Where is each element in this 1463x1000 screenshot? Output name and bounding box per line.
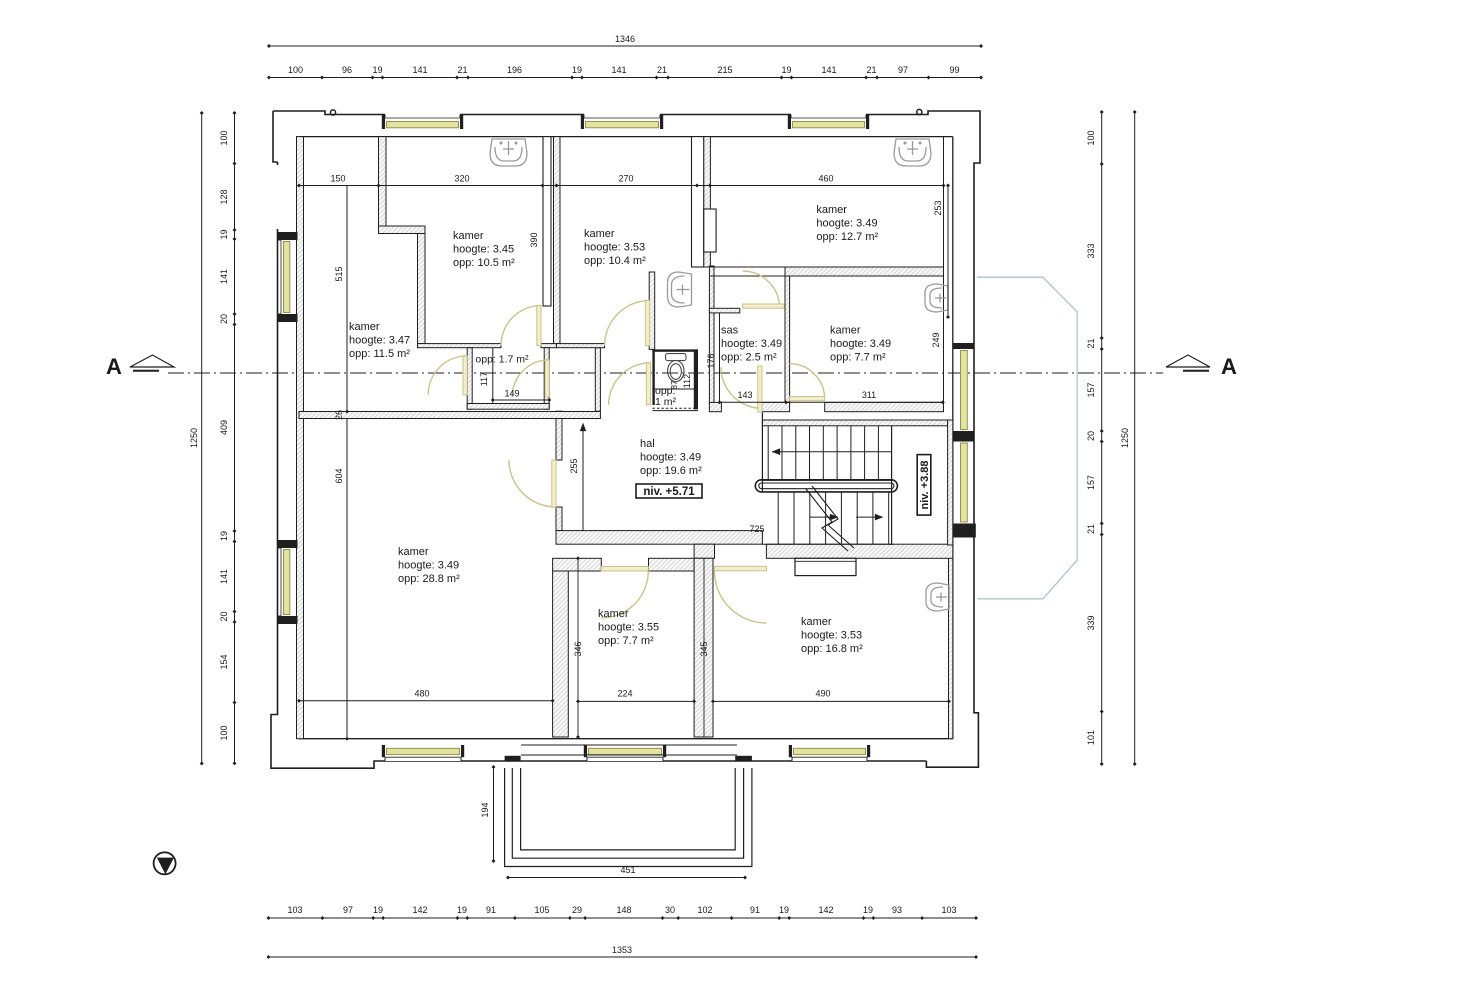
svg-text:154: 154 — [219, 654, 229, 669]
svg-text:hoogte: 3.53: hoogte: 3.53 — [801, 629, 862, 641]
svg-text:1346: 1346 — [615, 34, 635, 44]
svg-text:157: 157 — [1086, 475, 1096, 490]
svg-text:opp: 7.7 m²: opp: 7.7 m² — [830, 351, 886, 363]
svg-text:opp: 19.6 m²: opp: 19.6 m² — [640, 465, 702, 477]
svg-text:253: 253 — [933, 200, 943, 215]
svg-text:480: 480 — [414, 689, 429, 699]
svg-text:142: 142 — [412, 905, 427, 915]
svg-text:215: 215 — [717, 65, 732, 75]
svg-text:1250: 1250 — [189, 428, 199, 448]
svg-text:kamer: kamer — [349, 321, 380, 333]
svg-text:255: 255 — [569, 458, 579, 473]
svg-text:21: 21 — [1086, 338, 1096, 348]
svg-text:niv. +5.71: niv. +5.71 — [643, 486, 695, 498]
svg-text:141: 141 — [412, 65, 427, 75]
svg-text:19: 19 — [219, 531, 229, 541]
svg-text:kamer: kamer — [830, 325, 861, 337]
svg-text:opp: 10.4 m²: opp: 10.4 m² — [584, 255, 646, 267]
svg-text:311: 311 — [862, 390, 876, 400]
svg-text:103: 103 — [287, 905, 302, 915]
svg-text:148: 148 — [616, 905, 631, 915]
svg-text:sas: sas — [721, 325, 739, 337]
svg-text:19: 19 — [372, 65, 382, 75]
svg-text:20: 20 — [1086, 431, 1096, 441]
svg-text:604: 604 — [334, 468, 344, 483]
svg-text:99: 99 — [949, 65, 959, 75]
svg-text:490: 490 — [815, 689, 830, 699]
svg-text:157: 157 — [1086, 382, 1096, 397]
svg-text:93: 93 — [892, 905, 902, 915]
svg-text:345: 345 — [699, 641, 709, 656]
svg-text:hal: hal — [640, 438, 655, 450]
svg-text:100: 100 — [1086, 130, 1096, 145]
svg-text:97: 97 — [343, 905, 353, 915]
svg-text:opp: 2.5 m²: opp: 2.5 m² — [721, 351, 777, 363]
svg-text:112: 112 — [682, 374, 692, 388]
svg-text:21: 21 — [457, 65, 467, 75]
svg-text:21: 21 — [1086, 524, 1096, 534]
svg-text:kamer: kamer — [453, 230, 484, 242]
svg-text:30: 30 — [665, 905, 675, 915]
svg-text:103: 103 — [941, 905, 956, 915]
svg-text:hoogte: 3.47: hoogte: 3.47 — [349, 334, 410, 346]
svg-text:141: 141 — [219, 569, 229, 584]
svg-text:346: 346 — [573, 641, 583, 656]
svg-text:1 m²: 1 m² — [655, 396, 677, 408]
svg-text:hoogte: 3.49: hoogte: 3.49 — [398, 559, 459, 571]
svg-text:26: 26 — [334, 410, 344, 420]
svg-text:19: 19 — [779, 905, 789, 915]
svg-text:333: 333 — [1086, 243, 1096, 258]
svg-text:150: 150 — [330, 174, 345, 184]
svg-text:725: 725 — [749, 524, 764, 534]
svg-text:19: 19 — [373, 905, 383, 915]
svg-text:hoogte: 3.53: hoogte: 3.53 — [584, 241, 645, 253]
svg-text:20: 20 — [219, 611, 229, 621]
svg-text:niv. +3.88: niv. +3.88 — [919, 460, 931, 509]
svg-text:opp: 1.7 m²: opp: 1.7 m² — [475, 354, 529, 366]
svg-text:249: 249 — [931, 332, 941, 347]
svg-text:kamer: kamer — [584, 228, 615, 240]
svg-text:kamer: kamer — [816, 204, 847, 216]
svg-text:kamer: kamer — [801, 616, 832, 628]
svg-text:A: A — [106, 354, 122, 379]
svg-text:194: 194 — [480, 802, 490, 817]
svg-text:224: 224 — [617, 689, 632, 699]
svg-text:320: 320 — [454, 174, 469, 184]
svg-text:29: 29 — [572, 905, 582, 915]
svg-text:hoogte: 3.49: hoogte: 3.49 — [816, 217, 877, 229]
svg-text:19: 19 — [572, 65, 582, 75]
svg-text:kamer: kamer — [598, 608, 629, 620]
svg-text:460: 460 — [818, 174, 833, 184]
svg-text:91: 91 — [486, 905, 496, 915]
svg-text:19: 19 — [781, 65, 791, 75]
svg-text:141: 141 — [821, 65, 836, 75]
svg-text:100: 100 — [219, 725, 229, 740]
svg-text:hoogte: 3.49: hoogte: 3.49 — [830, 338, 891, 350]
svg-text:91: 91 — [750, 905, 760, 915]
svg-text:opp: 7.7 m²: opp: 7.7 m² — [598, 635, 654, 647]
svg-text:141: 141 — [219, 269, 229, 284]
svg-text:339: 339 — [1086, 615, 1096, 630]
svg-text:176: 176 — [706, 353, 716, 368]
svg-text:hoogte: 3.55: hoogte: 3.55 — [598, 621, 659, 633]
svg-text:117: 117 — [479, 372, 489, 386]
svg-text:409: 409 — [219, 420, 229, 435]
svg-text:451: 451 — [620, 865, 635, 875]
svg-text:19: 19 — [457, 905, 467, 915]
svg-text:101: 101 — [1086, 730, 1096, 745]
svg-text:390: 390 — [529, 232, 539, 247]
svg-text:opp: 28.8 m²: opp: 28.8 m² — [398, 573, 460, 585]
svg-text:143: 143 — [737, 390, 752, 400]
svg-text:1353: 1353 — [612, 945, 632, 955]
svg-text:96: 96 — [342, 65, 352, 75]
svg-text:hoogte: 3.49: hoogte: 3.49 — [721, 338, 782, 350]
svg-text:opp: 16.8 m²: opp: 16.8 m² — [801, 643, 863, 655]
svg-text:100: 100 — [288, 65, 303, 75]
svg-text:102: 102 — [697, 905, 712, 915]
svg-text:100: 100 — [219, 130, 229, 145]
svg-text:hoogte: 3.49: hoogte: 3.49 — [640, 451, 701, 463]
svg-text:19: 19 — [863, 905, 873, 915]
svg-text:21: 21 — [657, 65, 667, 75]
svg-text:hoogte: 3.45: hoogte: 3.45 — [453, 243, 514, 255]
svg-text:20: 20 — [219, 314, 229, 324]
svg-text:opp: 12.7 m²: opp: 12.7 m² — [816, 231, 878, 243]
svg-text:142: 142 — [818, 905, 833, 915]
svg-text:128: 128 — [219, 189, 229, 204]
svg-text:A: A — [1221, 354, 1237, 379]
svg-text:97: 97 — [898, 65, 908, 75]
svg-text:141: 141 — [611, 65, 626, 75]
svg-text:270: 270 — [618, 174, 633, 184]
svg-text:105: 105 — [534, 905, 549, 915]
svg-text:opp: 11.5 m²: opp: 11.5 m² — [349, 348, 410, 360]
svg-text:515: 515 — [334, 266, 344, 281]
svg-text:21: 21 — [866, 65, 876, 75]
svg-text:1250: 1250 — [1120, 428, 1130, 448]
svg-text:opp: 10.5 m²: opp: 10.5 m² — [453, 257, 515, 269]
svg-text:149: 149 — [504, 389, 519, 399]
svg-text:kamer: kamer — [398, 546, 429, 558]
svg-text:19: 19 — [219, 229, 229, 239]
svg-text:196: 196 — [507, 65, 522, 75]
